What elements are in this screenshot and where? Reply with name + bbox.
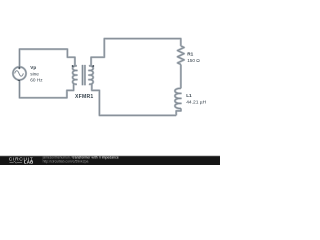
secondary phase dot [92, 65, 94, 67]
transformer core line left [81, 65, 83, 85]
svg-text:XFMR1: XFMR1 [75, 94, 94, 100]
wire L1 bottom jog [176, 108, 181, 115]
wire bottom-right loop [92, 84, 176, 116]
V1 minus sign [18, 79, 20, 81]
primary phase dot [72, 65, 74, 67]
wire top-left loop [20, 49, 75, 67]
svg-text:Vp: Vp [30, 65, 36, 70]
svg-text:R1: R1 [187, 51, 193, 56]
CircuitLab logo wave [10, 161, 23, 163]
watermark bar [0, 156, 220, 165]
voltage source V1 circle [13, 67, 26, 80]
svg-text:L1: L1 [186, 93, 192, 98]
wire secondary top to R1 [91, 39, 181, 67]
svg-text:http://circuitlab.com/c/59nk2p: http://circuitlab.com/c/59nk2pa [43, 159, 89, 163]
svg-text:44.21 µH: 44.21 µH [186, 99, 206, 105]
transformer XFMR1 secondary coil [89, 66, 93, 84]
inductor L1 coil [175, 88, 181, 108]
svg-text:150 Ω: 150 Ω [187, 58, 200, 63]
voltage source sine glyph [15, 71, 24, 77]
wire bottom-left loop [20, 80, 74, 98]
svg-text:sine: sine [30, 71, 39, 76]
wire R1 to L1 [180, 64, 182, 88]
transformer core line right [84, 65, 86, 85]
svg-text:LAB: LAB [24, 160, 34, 165]
svg-text:60 Hz: 60 Hz [30, 77, 43, 82]
V1 plus sign [18, 67, 20, 69]
transformer XFMR1 primary coil [73, 66, 77, 84]
resistor R1 zigzag [178, 46, 185, 64]
